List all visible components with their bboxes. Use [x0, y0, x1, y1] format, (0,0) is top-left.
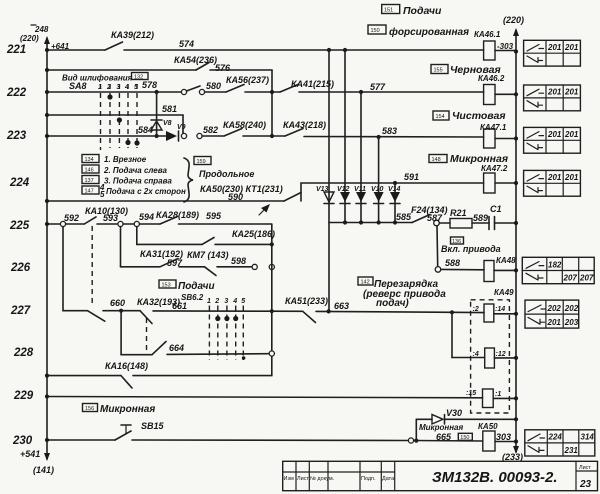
- svg-text:V10: V10: [371, 186, 384, 193]
- svg-text:182: 182: [548, 260, 562, 269]
- capacitor C1: [489, 204, 518, 230]
- svg-text:227: 227: [10, 305, 31, 317]
- svg-text:КА51(233): КА51(233): [285, 296, 328, 306]
- svg-text:661: 661: [172, 301, 187, 311]
- svg-text:201: 201: [547, 88, 562, 97]
- node 665 terminal: [408, 423, 482, 443]
- svg-text:156: 156: [85, 406, 94, 412]
- label Prodolnoe: [194, 157, 254, 180]
- svg-text:225: 225: [9, 220, 30, 232]
- wire V10 vertical: [378, 137, 380, 223]
- contact KA56: [226, 75, 280, 92]
- svg-text:КА58(240): КА58(240): [223, 120, 266, 130]
- svg-text:201: 201: [564, 43, 579, 52]
- svg-text:201: 201: [564, 173, 579, 182]
- svg-text:584: 584: [138, 125, 153, 135]
- svg-text:148: 148: [432, 157, 441, 163]
- svg-text:Лист: Лист: [297, 476, 309, 482]
- legend list with tags: [82, 155, 193, 203]
- svg-text:V8: V8: [163, 120, 172, 127]
- svg-text:585: 585: [396, 212, 412, 222]
- svg-text:578: 578: [142, 80, 157, 90]
- svg-text:207: 207: [579, 274, 594, 283]
- svg-text:201: 201: [564, 88, 579, 97]
- svg-text:Дата: Дата: [382, 476, 395, 482]
- title block: [283, 461, 598, 490]
- svg-text:V14: V14: [388, 186, 401, 193]
- svg-text:591: 591: [404, 172, 419, 182]
- contact KA31: [140, 249, 205, 268]
- svg-text:подач): подач): [376, 298, 409, 309]
- coil KA48: [484, 256, 518, 282]
- svg-text:КА47.2: КА47.2: [481, 164, 508, 173]
- svg-text:Изм: Изм: [284, 476, 294, 482]
- diode V12: [337, 186, 350, 204]
- svg-text:2: 2: [214, 298, 219, 305]
- wire 227 left: [63, 227, 88, 311]
- switch SB6.2 columns: [181, 293, 245, 360]
- svg-text:(141): (141): [33, 465, 54, 475]
- svg-text:5: 5: [241, 298, 245, 305]
- svg-text::4: :4: [473, 351, 479, 358]
- wire KA25 branch: [137, 227, 202, 245]
- label Chistovaya: [433, 110, 507, 132]
- diode V11: [354, 186, 366, 204]
- svg-text:150: 150: [460, 435, 469, 441]
- svg-text:(233): (233): [502, 452, 523, 462]
- svg-text:Лист: Лист: [579, 465, 591, 471]
- node on 221 for V13/V12: [327, 48, 347, 52]
- coil KA49 section 3: [466, 389, 518, 408]
- diode V14: [388, 186, 401, 204]
- node (141) bottom left: [20, 449, 54, 475]
- svg-text:R21: R21: [450, 208, 467, 218]
- contact table KA48: [522, 257, 594, 283]
- label Vid shlifovaniya: [62, 73, 148, 83]
- svg-text:(220): (220): [20, 34, 39, 43]
- svg-text:597: 597: [167, 258, 183, 268]
- svg-text:201: 201: [547, 173, 562, 182]
- svg-text:201: 201: [564, 130, 579, 139]
- wire V11 vertical: [360, 92, 362, 223]
- svg-text:229: 229: [13, 390, 34, 402]
- svg-text:1. Врезное: 1. Врезное: [104, 155, 147, 164]
- svg-text:V13: V13: [316, 186, 329, 193]
- svg-text:147: 147: [85, 189, 94, 195]
- contact table KA47.1: [524, 127, 581, 153]
- svg-text:137: 137: [85, 178, 94, 184]
- contact KA25: [202, 229, 275, 246]
- svg-text:663: 663: [334, 301, 349, 311]
- svg-text:ЗМ132В. 00093-2.: ЗМ132В. 00093-2.: [432, 469, 558, 486]
- svg-text:224: 224: [548, 433, 563, 442]
- svg-text:КА25(186): КА25(186): [232, 229, 275, 239]
- svg-text:577: 577: [370, 82, 386, 92]
- diode V13: [316, 186, 334, 204]
- contact table KA46.2: [524, 85, 581, 111]
- svg-text::15: :15: [466, 390, 476, 397]
- svg-text:132: 132: [134, 75, 143, 81]
- svg-text:Подача с 2х сторон: Подача с 2х сторон: [106, 187, 186, 196]
- right bus (220): [503, 15, 524, 454]
- label Mikronnaya: [429, 153, 508, 173]
- svg-text:580: 580: [206, 81, 221, 91]
- left bus +641: [44, 36, 50, 461]
- wire 222: [45, 80, 182, 94]
- svg-text:224: 224: [9, 177, 30, 189]
- contact KA16: [121, 376, 272, 388]
- label Podachi mid: [159, 280, 215, 292]
- coil KA49 section 1: [452, 304, 518, 322]
- node 663 junction: [450, 310, 454, 314]
- svg-text:КА46.1: КА46.1: [474, 30, 501, 39]
- svg-text:595: 595: [206, 211, 222, 221]
- contact KA41: [280, 79, 484, 94]
- svg-text:V9: V9: [177, 124, 186, 131]
- wire 230: [45, 438, 115, 442]
- contact 582 terminals: [181, 125, 224, 139]
- contact KM7: [187, 250, 252, 276]
- node 576/222 vertical: [270, 70, 274, 138]
- svg-text:КА28(189): КА28(189): [156, 210, 199, 220]
- svg-text:Вкл. привода: Вкл. привода: [441, 244, 501, 254]
- svg-text:КА16(148): КА16(148): [105, 361, 148, 371]
- svg-text:КА56(237): КА56(237): [226, 75, 269, 85]
- wire 225: [45, 213, 84, 227]
- svg-text:SА8: SА8: [69, 81, 87, 91]
- svg-text:589: 589: [473, 213, 488, 223]
- svg-text:583: 583: [382, 126, 397, 136]
- svg-text:146: 146: [85, 168, 94, 174]
- svg-text:Подп.: Подп.: [361, 476, 376, 482]
- diode V9: [166, 124, 186, 141]
- switch SA8: [69, 81, 140, 150]
- svg-text:660: 660: [110, 298, 125, 308]
- coil KA49 section 2: [452, 312, 518, 368]
- svg-text:SВ15: SВ15: [141, 421, 165, 431]
- mechanical link KA32: [146, 318, 148, 351]
- svg-text:КА54(236): КА54(236): [174, 55, 217, 65]
- wire 229: [45, 394, 483, 398]
- contact table KA49: [525, 300, 579, 328]
- svg-text:594: 594: [139, 212, 154, 222]
- rail number labels: [6, 44, 34, 447]
- svg-text:303: 303: [496, 432, 511, 442]
- svg-text:3. Подача справа: 3. Подача справа: [104, 177, 172, 186]
- svg-text:202: 202: [564, 304, 579, 313]
- svg-text:V12: V12: [337, 186, 350, 193]
- svg-text:153: 153: [162, 283, 171, 289]
- resistor R21: [439, 208, 489, 228]
- wire 581: [45, 104, 183, 133]
- svg-text:151: 151: [384, 8, 393, 14]
- svg-text:КА50: КА50: [478, 422, 498, 431]
- relay KA49 dashed box: [471, 288, 515, 413]
- svg-text:231: 231: [564, 446, 579, 455]
- svg-text:V30: V30: [446, 408, 462, 418]
- coil KA46.2: [484, 85, 519, 105]
- svg-text:Чистовая: Чистовая: [452, 110, 506, 122]
- svg-text::1: :1: [495, 391, 501, 398]
- svg-text:598: 598: [231, 256, 246, 266]
- contact 578-580 terminals: [181, 81, 226, 95]
- svg-text:V11: V11: [354, 186, 366, 193]
- svg-text:582: 582: [203, 125, 218, 135]
- contact table KA46.1: [524, 40, 581, 66]
- svg-text:+541: +541: [20, 449, 40, 459]
- node 227/272: [270, 309, 274, 313]
- wire KA16 row: [45, 361, 148, 378]
- svg-text:201: 201: [547, 318, 562, 327]
- contact KA51: [272, 296, 452, 323]
- svg-text:230: 230: [12, 435, 33, 447]
- svg-text:(220): (220): [503, 15, 524, 25]
- svg-text:3: 3: [224, 298, 228, 305]
- contact KA10 lower: [88, 298, 126, 321]
- label Chernovaya: [431, 64, 505, 83]
- svg-text:5: 5: [100, 190, 105, 199]
- svg-text:форсированная: форсированная: [389, 26, 469, 38]
- diode V10: [371, 186, 384, 204]
- contact 598 terminals: [252, 264, 274, 269]
- svg-text:150: 150: [371, 28, 380, 34]
- svg-text:142: 142: [361, 280, 370, 286]
- svg-text:593: 593: [103, 213, 118, 223]
- svg-text:Продольное: Продольное: [199, 169, 254, 179]
- svg-text:588: 588: [445, 258, 460, 268]
- svg-text:КА49: КА49: [494, 288, 514, 297]
- contact KA43: [283, 120, 484, 139]
- diode V30: [432, 408, 518, 424]
- node 578 junction: [155, 90, 159, 94]
- contact KT1 with arrow: [259, 172, 484, 215]
- svg-text:№ докум.: № докум.: [310, 476, 335, 482]
- svg-text:SВ6.2: SВ6.2: [181, 293, 204, 302]
- svg-text:664: 664: [169, 343, 184, 353]
- svg-text:КА41(215): КА41(215): [291, 79, 334, 89]
- svg-text:574: 574: [179, 39, 194, 49]
- node 593 terminal: [118, 212, 160, 227]
- contact table KA50: [525, 430, 595, 456]
- wire 585 rail: [329, 212, 412, 225]
- svg-text:590: 590: [228, 192, 243, 202]
- svg-text:221: 221: [6, 44, 26, 56]
- wire V14 vertical: [394, 183, 396, 223]
- fuse F24: [411, 205, 448, 226]
- wire V30 branch: [416, 419, 432, 440]
- svg-text::2: :2: [473, 306, 479, 313]
- contact KA58: [223, 120, 285, 136]
- svg-text:581: 581: [162, 104, 177, 114]
- mechanical link KA10: [91, 226, 93, 306]
- coil KA47.1: [484, 129, 519, 148]
- coil KA46.1: [474, 30, 518, 60]
- coil KA50: [478, 422, 518, 451]
- svg-text:Подачи: Подачи: [403, 5, 442, 17]
- svg-text:576: 576: [215, 63, 231, 73]
- svg-text:203: 203: [564, 318, 579, 327]
- label Mikronnaya bottom-left: [83, 404, 156, 416]
- svg-text:314: 314: [581, 433, 595, 442]
- svg-text:КА43(218): КА43(218): [283, 120, 326, 130]
- svg-text:592: 592: [64, 213, 79, 223]
- contact KA32: [121, 297, 272, 324]
- svg-text:С1: С1: [490, 204, 502, 214]
- contact KA54: [174, 55, 272, 73]
- svg-text:587: 587: [427, 213, 443, 223]
- svg-text:-303: -303: [497, 42, 514, 51]
- label Podachi forsirovannaya: [368, 5, 469, 39]
- svg-text:Микронная: Микронная: [100, 404, 155, 415]
- wire 228 drop: [121, 311, 152, 355]
- svg-text:201: 201: [547, 130, 562, 139]
- wire 226 drop: [121, 227, 161, 267]
- contact KA39: [105, 30, 484, 50]
- svg-text:226: 226: [10, 262, 31, 274]
- label Perezaryadka: [358, 277, 446, 309]
- contact KA10 upper: [84, 206, 128, 224]
- svg-text:154: 154: [436, 114, 445, 120]
- wire 223: [45, 134, 166, 138]
- svg-text:23: 23: [579, 479, 592, 490]
- svg-text:223: 223: [6, 130, 27, 142]
- wire 224 / 590: [45, 184, 284, 203]
- svg-text:4: 4: [232, 298, 237, 305]
- wire 576: [45, 68, 196, 72]
- svg-text:665: 665: [436, 432, 452, 442]
- wire 588 drop: [435, 226, 484, 272]
- svg-text:Подачи: Подачи: [178, 281, 215, 292]
- svg-text:КА39(212): КА39(212): [111, 30, 154, 40]
- wire 221: [45, 48, 105, 52]
- svg-text:2. Подача слева: 2. Подача слева: [103, 166, 167, 175]
- svg-text:КМ7 (143): КМ7 (143): [187, 250, 229, 260]
- wire V12 vertical: [344, 50, 346, 223]
- svg-text:155: 155: [434, 68, 443, 74]
- svg-text:159: 159: [197, 159, 206, 165]
- svg-text:201: 201: [547, 43, 562, 52]
- svg-text:248: 248: [34, 25, 49, 34]
- label Vkl privoda: [441, 237, 501, 254]
- svg-text:134: 134: [85, 157, 94, 163]
- contact table KA47.2: [524, 170, 581, 196]
- coil KA47.2: [484, 173, 519, 193]
- contact 664: [152, 342, 274, 357]
- svg-text:222: 222: [6, 87, 27, 99]
- svg-text::14: :14: [495, 306, 505, 313]
- wire right vertical x272: [271, 224, 273, 376]
- contact KA28: [156, 210, 272, 224]
- wire V13 vertical: [328, 50, 330, 311]
- svg-text:1: 1: [207, 298, 211, 305]
- svg-text::12: :12: [496, 351, 506, 358]
- svg-text:КА48: КА48: [496, 256, 516, 265]
- diode V8 on 578 vertical: [138, 92, 172, 138]
- svg-text:КА46.2: КА46.2: [478, 74, 505, 83]
- svg-text:Микронная: Микронная: [419, 423, 463, 432]
- pushbutton SB15: [115, 421, 408, 441]
- svg-text:202: 202: [547, 304, 562, 313]
- svg-text:228: 228: [13, 347, 34, 359]
- svg-text:207: 207: [563, 274, 578, 283]
- node 248 label top left: [20, 25, 70, 51]
